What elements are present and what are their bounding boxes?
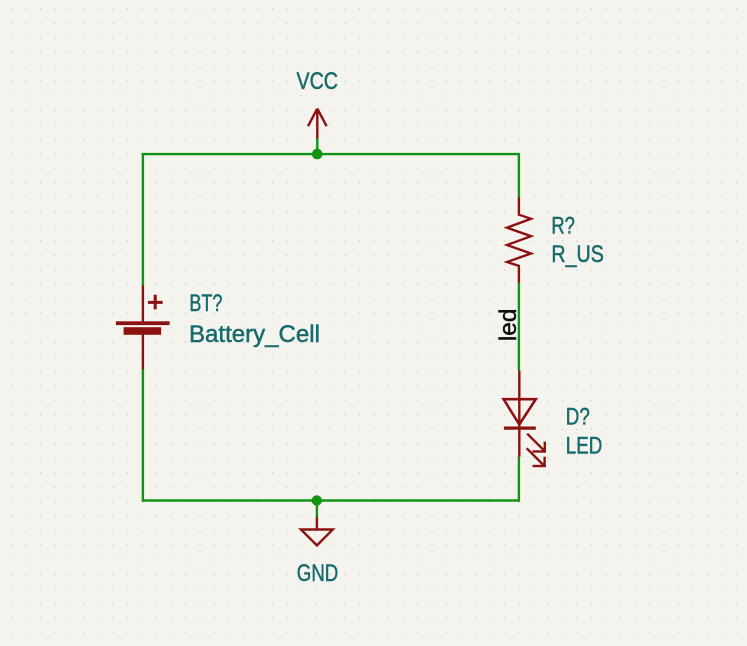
battery BT1: top pin bbox=[142, 285, 144, 322]
wire: GND stub bbox=[316, 501, 318, 518]
LED D1: cathode bar bbox=[504, 426, 536, 429]
junction: top node bbox=[312, 149, 323, 160]
svg-text:BT?: BT? bbox=[189, 290, 222, 317]
LED D1: emission arrow 2 bbox=[527, 448, 546, 467]
battery BT1: bottom pin bbox=[142, 334, 144, 369]
wire: top horizontal net bbox=[142, 153, 520, 155]
LED D1: emission arrow 1 bbox=[527, 434, 546, 453]
LED D1: bottom pin bbox=[518, 428, 520, 457]
svg-text:D?: D? bbox=[566, 404, 590, 431]
wire: right vertical net middle segment (net led) bbox=[518, 283, 520, 371]
power symbol VCC: arrow graphic bbox=[308, 109, 327, 139]
svg-text:LED: LED bbox=[566, 432, 603, 459]
svg-text:GND: GND bbox=[297, 560, 339, 587]
junction: bottom node bbox=[312, 495, 322, 505]
wire: VCC stub bbox=[316, 138, 318, 155]
wire: left vertical net lower segment bbox=[142, 369, 144, 502]
svg-text:R?: R? bbox=[551, 213, 575, 240]
battery BT1: plus sign bbox=[148, 295, 163, 310]
LED D1: top pin bbox=[518, 371, 520, 429]
wire: left vertical net upper segment bbox=[142, 153, 144, 286]
svg-text:R_US: R_US bbox=[551, 241, 604, 268]
wire: bottom horizontal net bbox=[142, 499, 520, 501]
power symbol GND: triangle graphic bbox=[301, 517, 333, 545]
wire: right vertical net upper segment bbox=[518, 153, 520, 198]
battery BT1: negative plate bbox=[124, 327, 162, 335]
svg-text:Battery_Cell: Battery_Cell bbox=[189, 321, 320, 348]
battery BT1: positive plate bbox=[116, 321, 170, 325]
LED D1: triangle bbox=[504, 399, 536, 424]
svg-text:led: led bbox=[495, 309, 522, 342]
svg-text:VCC: VCC bbox=[297, 68, 339, 95]
wire: right vertical net lower segment bbox=[518, 457, 520, 502]
resistor R1: zigzag body and pins bbox=[507, 197, 531, 282]
